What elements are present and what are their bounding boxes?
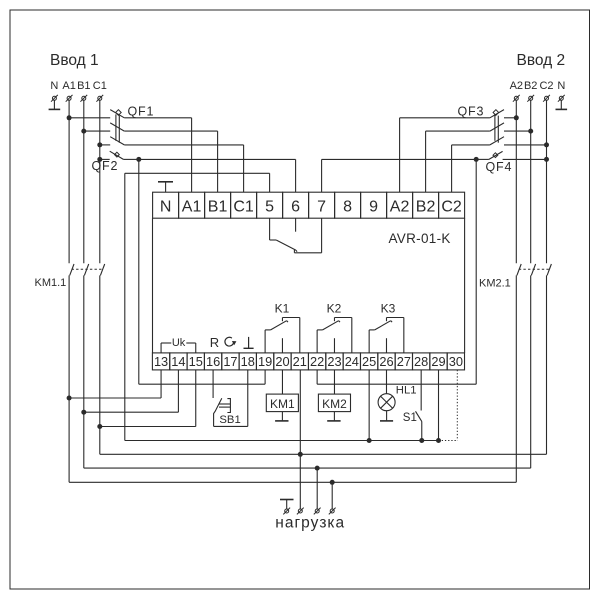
svg-text:QF3: QF3 <box>458 105 485 119</box>
svg-text:Ввод 1: Ввод 1 <box>50 52 99 69</box>
ground device terminal N <box>158 182 173 192</box>
label Ввод 2 <box>517 52 566 69</box>
svg-text:15: 15 <box>189 354 203 369</box>
svg-text:13: 13 <box>154 354 168 369</box>
device AVR-01-K body <box>153 218 465 353</box>
junction QF4 output <box>474 157 479 162</box>
ground input 2 N <box>556 100 568 109</box>
wire terminal 29 down <box>438 370 440 441</box>
wire B1 load phase to bus <box>83 275 85 468</box>
svg-text:20: 20 <box>275 354 289 369</box>
node C1 input <box>93 80 107 92</box>
node N input 2 <box>557 80 565 92</box>
svg-text:QF4: QF4 <box>486 160 513 174</box>
wire QF1 pole2 to terminal B1 <box>217 131 219 192</box>
junction phase C bus / load <box>298 452 303 457</box>
junction C1/terminal 15 <box>97 424 102 429</box>
node load N <box>283 508 290 515</box>
svg-text:30: 30 <box>449 354 463 369</box>
wire QF2 to terminal 6 <box>139 159 296 192</box>
coil KM2 <box>318 370 350 412</box>
ground coil KM2 <box>327 412 340 421</box>
node B1 input <box>77 80 90 92</box>
relay contact K3 <box>369 318 404 353</box>
junction bus/terminal 25 <box>367 438 372 443</box>
svg-text:KM1.1: KM1.1 <box>35 277 67 289</box>
node load phase A <box>329 508 336 515</box>
wire C2 load phase to bus <box>546 275 548 454</box>
wire phase C2 vertical <box>546 100 548 263</box>
wire bus phase B load <box>84 467 531 469</box>
junction A1/QF1 <box>67 115 72 120</box>
svg-text:B1: B1 <box>208 199 228 216</box>
svg-text:C2: C2 <box>539 80 553 92</box>
symbol ground terminal 18 <box>244 337 254 348</box>
pin terminal C2 (top row) <box>439 192 465 218</box>
label K1 <box>275 302 290 316</box>
wire QF2 down to terminal 19 <box>139 159 265 384</box>
svg-text:K1: K1 <box>275 302 290 316</box>
svg-text:AVR-01-K: AVR-01-K <box>389 231 451 246</box>
pin terminal 13 (bottom row) <box>152 353 169 370</box>
svg-text:6: 6 <box>291 199 300 216</box>
label SB1 <box>219 414 240 426</box>
wire QF1 pole3 to terminal C1 <box>243 145 245 192</box>
svg-text:QF2: QF2 <box>92 159 119 173</box>
wire phase B2 vertical <box>530 100 532 263</box>
svg-text:нагрузка: нагрузка <box>275 515 345 532</box>
junction C2/QF4 <box>544 157 549 162</box>
label QF4 <box>486 160 513 174</box>
wire bus phase A load <box>69 481 516 483</box>
svg-text:KM2: KM2 <box>322 397 347 411</box>
junction QF2 output <box>136 157 141 162</box>
changeover contact terminals 5-6-7 <box>270 218 322 253</box>
pin terminal 25 (bottom row) <box>360 353 377 370</box>
junction C2/QF3 <box>544 142 549 147</box>
wire A1 load phase to bus <box>68 275 70 482</box>
svg-text:16: 16 <box>206 354 220 369</box>
pin terminal A2 (top row) <box>387 192 413 218</box>
pin terminal C1 (top row) <box>231 192 257 218</box>
svg-text:26: 26 <box>379 354 393 369</box>
node A1 input <box>62 80 75 92</box>
wire terminal 5 feed <box>125 173 270 440</box>
pin terminal 14 (bottom row) <box>170 353 187 370</box>
symbol reset arrow terminal 17 <box>225 337 236 346</box>
wire to terminal 13 <box>69 370 161 398</box>
junction B2/QF3 <box>528 129 533 134</box>
label K3 <box>381 302 396 316</box>
ground input 1 N <box>49 100 61 109</box>
svg-text:14: 14 <box>171 354 185 369</box>
svg-text:S1: S1 <box>403 412 417 424</box>
wire phase B1 vertical <box>83 100 85 263</box>
label KM2.1 <box>479 278 511 290</box>
label R terminal 16 <box>210 335 219 350</box>
relay contact K1 <box>265 318 300 353</box>
switch S1 <box>416 370 422 441</box>
svg-text:B2: B2 <box>416 199 436 216</box>
svg-text:R: R <box>210 335 219 350</box>
node B2 input <box>524 80 537 92</box>
svg-text:SB1: SB1 <box>219 414 240 426</box>
node load phase B <box>314 508 321 515</box>
wire QF3 pole2 to terminal B2 <box>425 131 427 192</box>
pin terminal 7 (top row) <box>309 192 335 218</box>
wire A2 load phase to bus <box>515 275 517 482</box>
svg-text:C1: C1 <box>233 199 254 216</box>
label Uk bracket terminals 13-15 <box>161 337 196 353</box>
wire load phase A tap <box>331 482 333 509</box>
lamp HL1 <box>378 370 395 411</box>
pin terminal 28 (bottom row) <box>413 353 430 370</box>
pin terminal 17 (bottom row) <box>222 353 239 370</box>
pin terminal 22 (bottom row) <box>308 353 325 370</box>
svg-text:N: N <box>50 80 58 92</box>
junction A1/terminal 13 <box>67 396 72 401</box>
pin terminal B2 (top row) <box>413 192 439 218</box>
svg-text:17: 17 <box>223 354 237 369</box>
svg-text:N: N <box>160 199 172 216</box>
wire QF4 to terminal 7 <box>322 159 477 192</box>
svg-text:19: 19 <box>258 354 272 369</box>
circuit breaker QF3 <box>400 110 547 145</box>
svg-text:HL1: HL1 <box>396 384 417 396</box>
pin terminal 23 (bottom row) <box>326 353 343 370</box>
svg-text:27: 27 <box>397 354 411 369</box>
circuit breaker QF1 <box>69 110 244 145</box>
wire to terminal 14 <box>84 370 179 412</box>
pin terminal 19 (bottom row) <box>256 353 273 370</box>
svg-text:25: 25 <box>362 354 376 369</box>
svg-text:24: 24 <box>345 354 359 369</box>
pin terminal 24 (bottom row) <box>343 353 360 370</box>
svg-text:8: 8 <box>343 199 352 216</box>
ground load N <box>280 500 294 509</box>
wire QF1 pole1 to terminal A1 <box>191 118 193 192</box>
junction phase A bus / load <box>330 480 335 485</box>
svg-text:18: 18 <box>241 354 255 369</box>
pin terminal 30 (bottom row) <box>447 353 464 370</box>
pin terminal 5 (top row) <box>257 192 283 218</box>
junction bus/S1 <box>419 438 424 443</box>
pin terminal 20 (bottom row) <box>274 353 291 370</box>
label QF3 <box>458 105 485 119</box>
wire dotted terminal 30 <box>439 370 458 441</box>
ground coil KM1 <box>275 412 288 421</box>
svg-text:N: N <box>557 80 565 92</box>
svg-text:A2: A2 <box>510 80 523 92</box>
svg-text:A1: A1 <box>62 80 75 92</box>
pin terminal N (top row) <box>153 192 179 218</box>
contactor contacts KM1.1 <box>70 264 105 275</box>
wire to terminal 15 <box>100 370 196 427</box>
pin terminal B1 (top row) <box>205 192 231 218</box>
node N input 1 <box>50 80 58 92</box>
pin terminal 27 (bottom row) <box>395 353 412 370</box>
svg-text:A2: A2 <box>390 199 410 216</box>
node C2 input <box>539 80 553 92</box>
pin terminal A1 (top row) <box>179 192 205 218</box>
label QF2 <box>92 159 119 173</box>
ground lamp HL1 <box>380 411 393 421</box>
label S1 <box>403 412 417 424</box>
svg-text:7: 7 <box>317 199 326 216</box>
pin terminal 15 (bottom row) <box>187 353 204 370</box>
contactor contacts KM2.1 <box>517 264 552 275</box>
pin terminal 26 (bottom row) <box>378 353 395 370</box>
svg-text:B2: B2 <box>524 80 537 92</box>
pin terminal 16 (bottom row) <box>204 353 221 370</box>
svg-text:28: 28 <box>414 354 428 369</box>
junction B1/terminal 14 <box>81 410 86 415</box>
junction bus/terminal 29 <box>436 438 441 443</box>
pin terminal 29 (bottom row) <box>430 353 447 370</box>
circuit breaker QF4 <box>476 151 546 159</box>
svg-text:Uk: Uk <box>172 337 186 349</box>
junction A2/QF3 <box>514 115 519 120</box>
svg-text:Ввод 2: Ввод 2 <box>517 52 566 69</box>
svg-text:KM1: KM1 <box>270 397 295 411</box>
pin terminal 6 (top row) <box>283 192 309 218</box>
svg-text:KM2.1: KM2.1 <box>479 278 511 290</box>
svg-text:5: 5 <box>265 199 274 216</box>
wire phase C1 vertical <box>99 100 101 263</box>
relay contact K2 <box>317 318 352 353</box>
node load phase C <box>297 508 304 515</box>
svg-text:QF1: QF1 <box>128 105 155 119</box>
circuit breaker QF2 <box>100 151 139 159</box>
wire QF3 pole3 to terminal C2 <box>451 145 453 192</box>
pin terminal 21 (bottom row) <box>291 353 308 370</box>
junction C1/QF1 <box>97 142 102 147</box>
label Ввод 1 <box>50 52 99 69</box>
svg-text:21: 21 <box>293 354 307 369</box>
svg-text:22: 22 <box>310 354 324 369</box>
svg-text:A1: A1 <box>182 199 202 216</box>
wire QF3 pole1 to terminal A2 <box>399 118 401 192</box>
svg-text:K2: K2 <box>327 302 342 316</box>
wire load phase C tap <box>299 454 301 509</box>
junction C1/QF2 <box>97 157 102 162</box>
wire bus terminal 5 to 25/S1/29 <box>125 440 439 442</box>
svg-text:29: 29 <box>431 354 445 369</box>
svg-text:23: 23 <box>327 354 341 369</box>
push button SB1 <box>213 370 248 427</box>
svg-text:9: 9 <box>369 199 378 216</box>
wire QF4 down to terminal 22 <box>317 159 476 384</box>
label AVR-01-K <box>389 231 451 246</box>
label HL1 <box>396 384 417 396</box>
svg-text:B1: B1 <box>77 80 90 92</box>
wire B2 load phase to bus <box>530 275 532 468</box>
label QF1 <box>128 105 155 119</box>
wire C1 load phase to bus <box>99 275 101 454</box>
junction phase B bus / load <box>315 466 320 471</box>
wire terminal 25 down <box>368 370 370 441</box>
pin terminal 9 (top row) <box>361 192 387 218</box>
svg-text:C1: C1 <box>93 80 107 92</box>
svg-text:C2: C2 <box>441 199 462 216</box>
label KM1.1 <box>35 277 67 289</box>
coil KM1 <box>266 370 298 412</box>
node A2 input <box>510 80 523 92</box>
svg-text:K3: K3 <box>381 302 396 316</box>
pin terminal 8 (top row) <box>335 192 361 218</box>
wire load phase B tap <box>316 468 318 509</box>
label нагрузка <box>275 515 345 532</box>
pin terminal 18 (bottom row) <box>239 353 256 370</box>
junction B1/QF1 <box>81 129 86 134</box>
wire phase A1 vertical <box>68 100 70 263</box>
wire bus phase C load <box>100 453 547 455</box>
wire terminal 21 to phase C bus <box>299 370 301 454</box>
wire phase A2 vertical <box>515 100 517 263</box>
label K2 <box>327 302 342 316</box>
